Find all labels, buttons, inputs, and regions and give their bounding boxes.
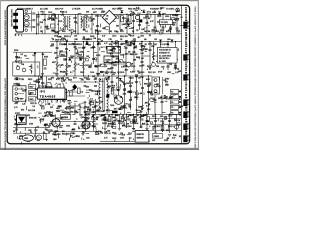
svg-text:4R7: 4R7 — [67, 113, 70, 115]
svg-text:CW: CW — [95, 94, 98, 96]
svg-text:22: 22 — [101, 40, 103, 42]
svg-text:R4: R4 — [24, 55, 26, 57]
svg-text:0.1: 0.1 — [59, 84, 62, 86]
svg-text:L60: L60 — [143, 17, 146, 19]
svg-text:4R7: 4R7 — [132, 122, 135, 124]
svg-text:0.1: 0.1 — [21, 54, 24, 56]
svg-text:D603: D603 — [96, 55, 100, 57]
svg-text:6V8: 6V8 — [75, 44, 78, 46]
svg-text:CW: CW — [51, 20, 54, 22]
svg-text:C622 1U: C622 1U — [95, 16, 103, 18]
svg-text:REG B+: REG B+ — [187, 124, 189, 131]
svg-text:D6: D6 — [81, 52, 83, 54]
svg-text:39: 39 — [167, 44, 169, 46]
svg-text:L FILTER: L FILTER — [72, 8, 81, 10]
svg-text:5%: 5% — [163, 80, 166, 82]
svg-text:L602: L602 — [140, 36, 144, 38]
svg-text:39: 39 — [167, 138, 169, 140]
svg-text:D603: D603 — [120, 72, 124, 74]
svg-text:601: 601 — [105, 18, 108, 20]
svg-text:1W: 1W — [174, 120, 177, 122]
svg-text:D6: D6 — [106, 16, 108, 18]
svg-text:22: 22 — [122, 115, 124, 117]
svg-text:C632: C632 — [176, 31, 180, 33]
svg-text:CW: CW — [28, 130, 31, 132]
svg-text:C61: C61 — [62, 31, 65, 33]
svg-text:SW+POT: SW+POT — [55, 8, 64, 10]
svg-text:0.1: 0.1 — [160, 44, 163, 46]
svg-text:REG B+: REG B+ — [187, 23, 189, 30]
svg-text:100: 100 — [180, 106, 183, 108]
svg-text:L60: L60 — [141, 53, 144, 55]
svg-text:C632: C632 — [80, 72, 84, 74]
svg-text:D6: D6 — [130, 23, 132, 25]
svg-text:2.2: 2.2 — [131, 82, 134, 84]
svg-text:C61: C61 — [118, 62, 121, 64]
svg-text:CAUTION HAZARD: CAUTION HAZARD — [10, 9, 13, 27]
svg-text:C635: C635 — [126, 83, 130, 85]
svg-text:22: 22 — [99, 66, 101, 68]
svg-text:IPS: IPS — [40, 91, 46, 93]
svg-text:5%: 5% — [95, 67, 98, 69]
svg-text:4R7: 4R7 — [56, 108, 59, 110]
svg-text:R622: R622 — [152, 116, 156, 118]
svg-text:5%: 5% — [71, 58, 74, 60]
svg-text:22: 22 — [149, 35, 151, 37]
svg-text:5%: 5% — [85, 44, 88, 46]
svg-text:TO DEFL: TO DEFL — [166, 8, 175, 10]
svg-text:D6: D6 — [75, 48, 77, 50]
svg-text:AC LINE: AC LINE — [40, 7, 48, 10]
svg-text:CW: CW — [106, 62, 109, 64]
svg-text:TO DEFL: TO DEFL — [161, 22, 169, 24]
svg-text:D706: D706 — [14, 50, 18, 52]
svg-text:22: 22 — [154, 132, 156, 134]
svg-text:R4: R4 — [96, 102, 98, 104]
svg-text:AC 120V 60HZ: AC 120V 60HZ — [159, 54, 172, 57]
svg-text:R621: R621 — [29, 99, 33, 101]
svg-text:REG B+: REG B+ — [187, 100, 189, 107]
svg-text:6V8: 6V8 — [72, 129, 75, 131]
svg-text:100: 100 — [79, 114, 82, 116]
svg-text:C61: C61 — [65, 78, 68, 80]
svg-text:5%: 5% — [98, 39, 101, 41]
svg-text:.01: .01 — [56, 131, 59, 133]
svg-text:5%: 5% — [71, 111, 74, 113]
svg-text:R608: R608 — [136, 57, 140, 59]
svg-text:6V8: 6V8 — [166, 31, 169, 33]
svg-text:0.1: 0.1 — [80, 107, 82, 109]
svg-text:100: 100 — [107, 131, 110, 133]
svg-text:1W: 1W — [76, 112, 79, 114]
svg-text:REG B+: REG B+ — [187, 112, 189, 119]
svg-text:.01: .01 — [61, 65, 64, 67]
svg-text:6V8: 6V8 — [86, 39, 89, 41]
svg-text:R625: R625 — [68, 80, 72, 82]
svg-text:1W: 1W — [114, 109, 117, 111]
svg-text:C645: C645 — [66, 126, 70, 128]
svg-text:A21 1/B: A21 1/B — [28, 109, 36, 112]
svg-text:R4: R4 — [35, 89, 37, 91]
svg-text:P6: P6 — [171, 113, 173, 115]
svg-text:R709 10K: R709 10K — [29, 118, 37, 120]
svg-text:0.1: 0.1 — [125, 24, 128, 26]
svg-text:0.1: 0.1 — [74, 31, 77, 33]
svg-text:R602 2.2: R602 2.2 — [64, 36, 71, 38]
svg-text:5%: 5% — [116, 26, 119, 28]
svg-text:REG B+: REG B+ — [187, 55, 189, 62]
svg-text:.01: .01 — [43, 132, 46, 134]
svg-text:2.2: 2.2 — [123, 124, 126, 126]
svg-text:5%: 5% — [113, 73, 116, 75]
svg-text:39: 39 — [42, 14, 44, 16]
svg-text:SENSOR: SENSOR — [137, 138, 145, 140]
svg-text:CW: CW — [44, 113, 47, 115]
svg-text:39: 39 — [133, 44, 135, 46]
svg-text:1W: 1W — [130, 64, 133, 66]
svg-text:R617: R617 — [29, 87, 33, 89]
svg-text:0.1: 0.1 — [85, 31, 88, 33]
svg-text:CW: CW — [145, 49, 148, 51]
svg-text:CW: CW — [61, 15, 64, 17]
svg-text:0.47: 0.47 — [130, 72, 133, 74]
svg-text:1W: 1W — [169, 29, 172, 31]
svg-text:D6: D6 — [40, 31, 42, 33]
svg-text:0.1: 0.1 — [33, 55, 36, 57]
svg-text:C604: C604 — [90, 72, 94, 74]
svg-text:100U: 100U — [120, 138, 125, 140]
svg-text:0.1: 0.1 — [33, 106, 36, 108]
svg-text:DM2: DM2 — [24, 138, 28, 140]
svg-text:CW: CW — [122, 118, 125, 120]
svg-text:4R7: 4R7 — [93, 12, 96, 14]
svg-text:L602: L602 — [14, 103, 18, 105]
svg-text:47UF: 47UF — [158, 72, 162, 74]
svg-text:C61: C61 — [43, 20, 46, 22]
svg-text:C61: C61 — [166, 130, 169, 132]
svg-text:100: 100 — [161, 66, 164, 68]
svg-text:R612 100: R612 100 — [130, 54, 138, 56]
svg-text:R618: R618 — [28, 79, 32, 81]
svg-text:1W: 1W — [133, 60, 136, 62]
svg-text:220: 220 — [88, 45, 91, 47]
svg-text:100: 100 — [125, 70, 128, 72]
svg-text:R612 100: R612 100 — [62, 134, 70, 136]
svg-text:4R7: 4R7 — [102, 28, 105, 30]
svg-text:C622 1U: C622 1U — [30, 103, 38, 105]
svg-text:L60: L60 — [76, 53, 79, 55]
svg-text:L602: L602 — [73, 18, 77, 20]
svg-text:2.2: 2.2 — [68, 103, 71, 105]
svg-text:C628: C628 — [112, 138, 116, 140]
svg-text:D615: D615 — [70, 108, 74, 110]
svg-text:0.47: 0.47 — [102, 36, 105, 38]
svg-text:39: 39 — [138, 37, 140, 39]
svg-text:220: 220 — [104, 66, 107, 68]
svg-text:5%: 5% — [109, 44, 112, 46]
svg-text:R602 2.2: R602 2.2 — [60, 12, 67, 14]
svg-text:22: 22 — [177, 68, 179, 70]
svg-text:D6: D6 — [116, 78, 118, 80]
svg-text:L603: L603 — [152, 12, 156, 14]
svg-text:100U: 100U — [56, 111, 61, 113]
svg-text:100U: 100U — [165, 16, 170, 18]
svg-text:6V8: 6V8 — [113, 124, 116, 126]
svg-text:CN605: CN605 — [154, 136, 159, 138]
svg-text:0.1: 0.1 — [129, 78, 132, 80]
svg-text:CW: CW — [140, 77, 143, 79]
svg-text:B+ 135V: B+ 135V — [159, 61, 167, 63]
svg-text:D611: D611 — [113, 65, 117, 67]
svg-text:C610: C610 — [160, 8, 164, 10]
svg-text:22: 22 — [145, 44, 147, 46]
svg-text:2.2: 2.2 — [105, 78, 108, 80]
svg-text:C61: C61 — [57, 106, 60, 108]
svg-text:1W: 1W — [114, 31, 117, 33]
svg-text:R612 100: R612 100 — [120, 36, 128, 38]
svg-text:0.47: 0.47 — [136, 8, 139, 10]
svg-text:REG MOD B+: REG MOD B+ — [128, 8, 141, 10]
svg-text:0.1: 0.1 — [64, 112, 67, 114]
svg-text:1W: 1W — [82, 132, 85, 134]
svg-text:39: 39 — [133, 13, 135, 15]
svg-text:22: 22 — [152, 129, 154, 131]
svg-text:220: 220 — [50, 107, 53, 109]
svg-text:1W: 1W — [169, 64, 172, 66]
svg-text:0.1: 0.1 — [124, 89, 127, 91]
svg-text:C628: C628 — [131, 66, 135, 68]
svg-text:L60: L60 — [167, 39, 170, 41]
svg-text:5%: 5% — [115, 61, 118, 63]
svg-text:P4: P4 — [171, 102, 173, 104]
svg-text:L602: L602 — [167, 72, 171, 74]
svg-text:TDA4605: TDA4605 — [40, 95, 56, 99]
svg-text:R4: R4 — [144, 31, 146, 33]
svg-text:39: 39 — [148, 104, 150, 106]
svg-text:1W: 1W — [21, 79, 24, 81]
svg-text:22: 22 — [149, 83, 151, 85]
svg-text:D611: D611 — [128, 133, 132, 135]
svg-text:100: 100 — [59, 127, 62, 129]
svg-text:REMOTE: REMOTE — [137, 134, 145, 136]
svg-text:CW: CW — [86, 119, 89, 121]
svg-text:VOLTAGES AT: VOLTAGES AT — [159, 49, 172, 52]
svg-text:.01: .01 — [64, 39, 67, 41]
svg-text:6V8: 6V8 — [86, 107, 89, 109]
svg-text:0.1: 0.1 — [95, 78, 98, 80]
svg-text:SEE NOTE 4: SEE NOTE 4 — [159, 58, 169, 60]
svg-text:D6: D6 — [154, 44, 156, 46]
svg-text:.01: .01 — [52, 15, 55, 17]
svg-text:100: 100 — [96, 117, 99, 119]
svg-text:R4: R4 — [141, 58, 143, 60]
svg-text:D6: D6 — [129, 106, 131, 108]
svg-text:C706: C706 — [29, 124, 33, 126]
svg-text:.01: .01 — [108, 115, 111, 117]
svg-text:R705: R705 — [44, 57, 48, 59]
svg-text:AC POWER: AC POWER — [92, 7, 103, 10]
svg-text:REG B+: REG B+ — [187, 75, 189, 82]
svg-text:0.1: 0.1 — [55, 58, 57, 60]
svg-text:D6: D6 — [154, 39, 156, 41]
svg-text:6V8: 6V8 — [141, 116, 144, 118]
svg-text:22: 22 — [104, 64, 106, 66]
svg-text:C61: C61 — [109, 31, 112, 33]
svg-text:CW: CW — [55, 31, 58, 33]
svg-text:39: 39 — [125, 27, 127, 29]
svg-text:STANDBY IN: STANDBY IN — [159, 51, 170, 54]
svg-text:22: 22 — [100, 132, 102, 134]
svg-text:R4: R4 — [179, 114, 181, 116]
svg-text:REG B+: REG B+ — [187, 136, 189, 143]
svg-text:4R7: 4R7 — [145, 103, 148, 105]
svg-text:47UF: 47UF — [58, 21, 62, 23]
svg-text:1W: 1W — [178, 71, 181, 73]
svg-text:39: 39 — [20, 99, 22, 101]
svg-text:CW: CW — [126, 20, 129, 22]
svg-text:6V8: 6V8 — [122, 135, 125, 137]
svg-text:D603: D603 — [164, 140, 168, 142]
svg-text:22: 22 — [103, 110, 105, 112]
svg-text:R618: R618 — [78, 44, 82, 46]
svg-text:22: 22 — [133, 39, 135, 41]
svg-text:C604: C604 — [48, 12, 52, 14]
svg-text:P5: P5 — [171, 107, 173, 109]
svg-text:CW: CW — [86, 87, 89, 89]
svg-text:C632: C632 — [102, 123, 106, 125]
svg-text:P2: P2 — [171, 91, 173, 93]
svg-text:.01: .01 — [78, 128, 81, 130]
svg-text:4R7: 4R7 — [173, 23, 176, 25]
svg-text:L60: L60 — [99, 102, 102, 104]
svg-text:39: 39 — [155, 31, 157, 33]
svg-text:C610: C610 — [112, 36, 116, 38]
svg-text:1000: 1000 — [55, 74, 59, 76]
svg-text:PAGE 2-11 POWER SUPPLY SCHEMAT: PAGE 2-11 POWER SUPPLY SCHEMATIC DIAGRAM… — [194, 7, 197, 150]
svg-text:47U: 47U — [62, 101, 66, 103]
svg-text:D615: D615 — [168, 116, 172, 118]
svg-text:22: 22 — [48, 132, 50, 134]
svg-text:22: 22 — [108, 87, 110, 89]
svg-text:R4: R4 — [123, 62, 125, 64]
svg-text:C610: C610 — [140, 72, 144, 74]
svg-text:CW: CW — [158, 14, 161, 16]
svg-text:5%: 5% — [37, 140, 40, 142]
svg-text:D6: D6 — [164, 98, 166, 100]
svg-text:1W: 1W — [51, 44, 54, 46]
svg-text:C604: C604 — [110, 105, 114, 107]
svg-text:6V8: 6V8 — [108, 69, 111, 71]
svg-text:1W: 1W — [120, 44, 123, 46]
svg-text:0.1: 0.1 — [70, 72, 72, 74]
svg-text:39: 39 — [13, 131, 15, 133]
svg-text:R602 2.2: R602 2.2 — [79, 58, 86, 60]
svg-text:CW: CW — [61, 78, 64, 80]
svg-text:CHASSIS GWM3200 SERVICE DATA: CHASSIS GWM3200 SERVICE DATA — [3, 10, 6, 46]
svg-text:1W: 1W — [47, 19, 50, 21]
svg-text:C61: C61 — [136, 115, 139, 117]
svg-text:B P 1: B P 1 — [15, 35, 23, 37]
svg-text:D603: D603 — [118, 8, 122, 10]
svg-text:R4: R4 — [148, 31, 150, 33]
svg-text:R612 100: R612 100 — [148, 72, 156, 74]
svg-text:0.47: 0.47 — [172, 138, 175, 140]
svg-text:CW: CW — [109, 39, 112, 41]
svg-text:D615: D615 — [160, 30, 164, 32]
svg-text:39: 39 — [137, 71, 139, 73]
svg-text:100: 100 — [86, 138, 89, 140]
